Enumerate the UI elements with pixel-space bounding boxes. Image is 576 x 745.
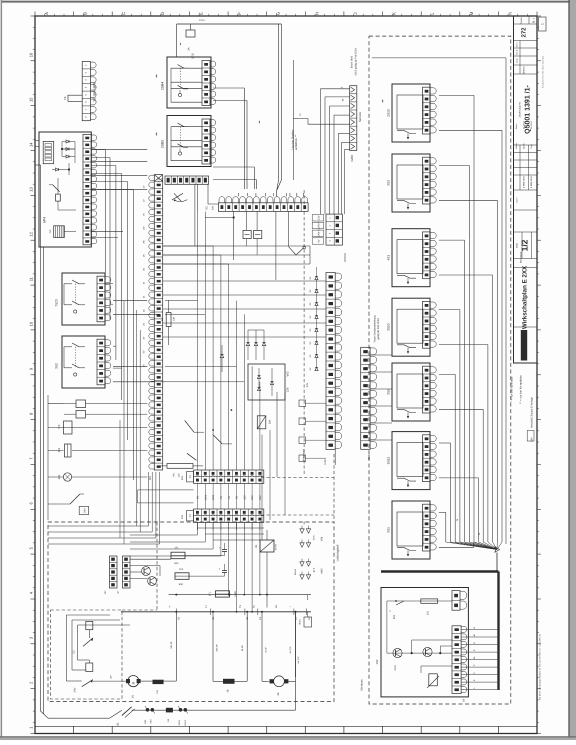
svg-text:Service: Service [358,112,362,122]
svg-text:C: C [121,12,126,15]
title block outline [514,16,538,363]
svg-text:M: M [131,681,135,684]
svg-text:X200 gültig ab Feb 2004: X200 gültig ab Feb 2004 [354,48,357,76]
svg-text:CAN-L: CAN-L [318,229,321,237]
capacitor C1 + [222,549,227,551]
horizontal wires X20 area to relay K1 [198,528,265,540]
wires X21 bottom stubs [335,253,345,465]
scanner edge top strip [0,0,576,1]
diode column left of X21 [309,267,318,371]
switch module 2S10 outline [392,84,430,142]
dashed enclosure right modules [369,36,511,704]
svg-text:Y-: Y- [169,605,172,607]
svg-text:wh rt: wh rt [313,535,316,540]
switch module 3S1 pin strip [423,504,431,551]
svg-text:2N: 2N [143,268,146,271]
6P4 counter box 00000h [43,141,54,163]
terminal strip X1 [218,203,308,212]
main switch Q1 [122,707,132,716]
svg-text:3A: 3A [188,47,191,50]
switch module 4S1 bottom contact [397,275,416,278]
module 2SB4 outline [167,57,211,108]
feeder wires into X20 label area [138,489,194,491]
terminal strip X21 [326,273,335,450]
terminal strip K7 left [110,556,118,588]
svg-text:Schutzvermerk ISO 16016 beacht: Schutzvermerk ISO 16016 beachten [542,56,545,88]
suppressor box V63 [248,364,285,400]
svg-text:Gepr.: Gepr. [530,143,533,148]
svg-text:G: G [276,12,281,15]
switch block 3S2 link and actuator [75,347,77,368]
svg-text:sw 2,5²: sw 2,5² [297,656,300,663]
switch block 3S2 left wire [63,347,65,368]
bus connector labels X0 X5 X3 X1 X4 [176,609,311,620]
scanner edge right band [568,0,570,740]
svg-text:E: E [199,12,204,15]
sheet index box top right [539,17,547,31]
svg-text:+: + [219,546,221,550]
svg-text:M: M [469,11,474,15]
svg-text:24.03.04: 24.03.04 [530,120,533,129]
svg-text:CAN: CAN [204,495,207,500]
svg-text:24V: 24V [83,508,86,513]
wires from 2SB4 strip to vertical pair A [213,87,244,89]
svg-text:272: 272 [521,27,528,38]
terminal strip K7 right [123,556,131,588]
switch block 3S2 pin strip [97,339,105,385]
6P4 internal connect wires [62,148,75,150]
svg-text:Ident-Nr.: Ident-Nr. [523,65,526,74]
switch module 3S3 outline [392,154,430,212]
switch module 3S10 pin strip [423,301,431,348]
funnel wire merge above X1 [277,180,282,191]
svg-text:6AxN MVB: 6AxN MVB [351,56,354,69]
svg-text:6P4: 6P4 [43,217,47,223]
svg-text:Ers.d.: Ers.d. [516,49,519,55]
svg-text:71h: 71h [49,229,52,234]
svg-text:8B: 8B [277,692,280,695]
switch module 3S10 outline [392,298,430,356]
contact with arrow lower [82,680,93,687]
switch module 2S10 pin strip [423,87,431,134]
module 2SB5 pin strip [202,119,210,164]
wires from 2SB5 strip to vertical pair B [213,166,254,168]
svg-text:Gehäuse: Gehäuse [360,679,364,691]
unit internal wires [387,601,452,673]
svg-text:Wirkschaltplan E 2XX: Wirkschaltplan E 2XX [522,265,529,329]
knot switch symbol below X19 [172,193,187,201]
svg-text:J: J [353,12,358,14]
svg-text:K7: K7 [104,590,107,594]
svg-text:A: A [44,12,49,15]
switch S3 [70,494,80,504]
svg-text:rt 2,5²: rt 2,5² [265,647,268,653]
shunt 3B [223,679,235,684]
module 2SB5 internal wires [171,126,202,128]
svg-text:1N: 1N [143,254,146,257]
motor X1 with brushes [274,676,285,687]
svg-text:Ers.f.: Ers.f. [516,42,519,47]
terminal strip X20 lower [194,509,264,522]
svg-text:Bearb.: Bearb. [523,142,526,148]
switch module 4S1 outline [392,229,430,287]
svg-text:Name: Name [515,123,518,129]
wires left components to K3 [48,395,147,520]
connector X200 chevron cells [350,86,357,151]
svg-text:PE: PE [64,96,67,100]
svg-text:2S10: 2S10 [387,109,391,117]
switch module 3S10 bottom contact [397,345,416,348]
wire branch Y split [289,247,304,255]
svg-text:U16: U16 [323,459,327,465]
svg-text:Benennung: Benennung [520,251,523,263]
svg-text:1: 1 [541,23,545,25]
terminal strip K3 [154,175,162,470]
indicator lamps cluster B [294,559,324,580]
svg-text:**: ** [155,132,160,136]
svg-text:0V: 0V [220,496,223,499]
diode row of three [246,330,265,360]
label cell X1 upper strip [187,472,194,482]
capacitor C2 + [222,570,227,572]
module 2SB5 switch contact lower [178,144,185,148]
terminal plugs K41 X40 [146,708,150,712]
svg-text:X200: X200 [350,155,354,162]
junction dots on main bus [175,594,296,613]
top ruler ticks and column letters [35,11,537,16]
scanner edge left line [0,0,1,740]
svg-text:H: H [314,12,319,15]
svg-text:2SB5: 2SB5 [161,140,165,148]
6P4 switch contact [53,185,60,192]
relay square K20 b [254,230,262,238]
fuse 1F1 80A [171,552,185,559]
verticals linking X20 strips [198,483,260,509]
svg-text:Anschluß Zusatz-E-Anlage: Anschluß Zusatz-E-Anlage [531,397,534,428]
svg-text:D: D [160,12,165,15]
svg-text:4.FEB.2004: 4.FEB.2004 [523,176,526,188]
switch module 4S1 pin strip [423,232,431,279]
svg-text:Zeichn.: Zeichn. [520,17,523,25]
horizontal feeder wires above X20 [163,246,245,382]
lamp 4H1 [63,473,71,481]
wire X19 right end down to X1 [208,184,218,204]
X6 labels 12V CAN-H CAN-L 0V [312,215,324,245]
wire PE loop to X2 [68,95,82,101]
svg-text:4S1: 4S1 [387,255,391,261]
bus labels T1 T3 A1 A2 [169,604,292,608]
svg-text:0V: 0V [228,496,231,499]
module 2SB4 switch contact lower [178,85,185,89]
switch module 3S5 bottom contact [397,410,416,413]
switch module 4S1 inner box [397,240,423,274]
svg-text:BI 36²: BI 36² [241,645,244,651]
wire K1 to bus [266,552,268,608]
svg-text:V64: V64 [321,536,324,541]
svg-text:0V: 0V [318,239,321,242]
svg-text:Urspr.: Urspr. [516,57,519,63]
svg-text:X2: 6Mx 6P6: X2: 6Mx 6P6 [93,82,97,102]
svg-text:X7: X7 [117,590,120,594]
svg-text:36²: 36² [110,675,113,678]
wires between center strips and modules [370,355,392,440]
svg-text:**: ** [382,99,386,102]
svg-text:7S23: 7S23 [55,299,59,307]
svg-text:24V: 24V [212,205,215,210]
wires below X1 relay squares [246,239,248,246]
scanner edge bottom band [0,736,576,737]
thick bus vertical [497,572,499,691]
transistor Q11 [148,577,157,586]
switch module 8S11 bottom contact [397,478,416,481]
wire fuse 1F3 right [189,575,225,577]
wires X20 lower strip down to power bus [228,522,261,612]
fuse Q6 inline [166,708,173,713]
fuse 6F1 10A horizontal [167,464,193,469]
svg-text:Neue Geräteanlenkung: Neue Geräteanlenkung [374,315,377,342]
vertical wire pair A [243,88,245,189]
svg-text:15: 15 [29,97,34,102]
contactor coil K9 lower [86,663,93,671]
switch block 7S23 contact lower [72,301,79,305]
svg-text:6V 9V: 6V 9V [275,543,278,550]
svg-text:26A: 26A [269,419,272,424]
valve coil 7Y3 [64,421,73,434]
wires X20 strips vertical stubs [198,465,260,530]
svg-text:B: B [83,12,88,15]
module 2SB5 switch contact upper [178,123,185,127]
motor circuit 2 wires [213,612,247,682]
svg-text:X1: X1 [205,206,209,210]
right ruler ticks [537,16,541,734]
vertical wires below K3 to lower left area [48,472,160,544]
fuse 6F1 10A [166,313,171,327]
svg-text:24V: 24V [306,382,309,387]
signal labels between X20 strips [197,495,262,500]
svg-text:SW 36²: SW 36² [170,641,173,649]
unit top connector 2 cells [452,591,460,611]
svg-text:7219: 7219 [394,665,397,671]
svg-text:2F1: 2F1 [209,591,212,596]
terminal strip X20 upper [194,470,264,483]
svg-text:3S10: 3S10 [387,323,391,331]
relay K5 boxes [76,400,86,408]
module 2SB5 mechanical link [180,127,182,147]
extra vertical wires left midfield [105,284,140,544]
svg-text:24V: 24V [251,495,254,500]
svg-text:Q1.: Q1. [117,722,120,726]
svg-text:Datum: Datum [515,143,518,149]
svg-text:Reset: Reset [294,569,297,575]
svg-text:24.03.04: 24.03.04 [523,120,526,129]
svg-text:24V: 24V [181,475,184,480]
module output wires to bus verticals [439,95,502,547]
connector X2 6Mx 6P6 [82,62,96,121]
svg-text:0V: 0V [236,496,239,499]
motor 3M1 [128,676,139,687]
switch module 3S1 bottom contact [397,548,416,551]
bottom supply wire [48,717,109,719]
svg-text:gn rt: gn rt [313,567,316,572]
relay contact symbols mid left [185,421,232,461]
fan junction node [495,547,500,553]
svg-text:24V: 24V [259,495,262,500]
wires 3S2 to right [113,365,147,367]
svg-text:Co: Co [73,650,76,654]
unit main strip [452,626,461,694]
fuse 2F32 3A [186,30,195,37]
svg-text:Zeichnungs-Nr.: Zeichnungs-Nr. [519,101,522,118]
switch module 3S5 outline [392,363,430,421]
module 2SB4 switch contact upper [178,65,185,69]
small squares left of X21 lower [299,400,326,462]
switch block 7S23 outline [62,273,105,325]
svg-text:Norm: Norm [516,197,519,202]
svg-text:Bl. 1: Bl. 1 [533,17,536,23]
fuse 2F5 [65,444,72,457]
svg-text:13: 13 [29,187,34,192]
title block company logo bar [521,330,527,361]
svg-text:Interface-I: Interface-I [301,448,305,461]
svg-text:Leistungsteil: Leistungsteil [336,544,340,561]
boxed label 24V [79,507,89,515]
svg-text:7Y3: 7Y3 [58,424,61,429]
switch block 3S2 contact lower [72,364,79,368]
module 2SB4 pin strip [202,61,210,106]
svg-text:+: + [219,567,221,571]
terminal plugs X40.1 K41.1 [179,708,183,712]
svg-text:10: 10 [29,321,34,326]
motor circuit 3 wires [262,612,296,682]
svg-text:1F3: 1F3 [179,568,184,571]
wire diagonal up to switch [109,710,122,718]
vertical wire pair below X19 [194,184,196,246]
wires 7S23 to right [113,300,147,302]
svg-text:9S2: 9S2 [393,614,396,619]
svg-text:CAN: CAN [212,495,215,500]
wire bus right end down [295,612,297,710]
relay square K20 a [243,230,251,238]
svg-text:Für diese Zeichnung behalten w: Für diese Zeichnung behalten wir uns all… [539,633,542,700]
switch block 3S2 contact upper [72,343,79,347]
vertical wire pair C from top feed [278,24,280,180]
wires 6P4 strip to K3 strip [91,150,147,238]
svg-text:2A: 2A [303,521,306,524]
svg-text:24V: 24V [74,687,77,692]
B20 cell numbers [363,350,366,446]
svg-text:** = nur bei Kompaktus: ** = nur bei Kompaktus [519,375,523,404]
dashed boundary step [156,522,158,610]
svg-text:X19: X19 [158,177,161,182]
upper distribution wire [169,594,311,596]
transistor Q10 [142,567,151,576]
long vertical wire left of X200 [293,60,295,180]
6P4 diode array [61,140,75,158]
bottom ruler line with ticks [35,726,537,733]
svg-text:3S1: 3S1 [387,527,391,533]
svg-text:* nur bei Stopfen-: * nur bei Stopfen- [292,129,295,150]
svg-text:X4: X4 [463,698,466,702]
diode D1 mid [220,354,223,357]
switch block 7S23 left wire [63,284,65,305]
svg-text:9U15: 9U15 [299,619,302,625]
module 2SB4 mechanical link [180,68,182,88]
6P4 coil diode [56,168,59,171]
unit strip output stubs [461,626,497,689]
wires battery area [66,615,130,681]
relay block 6P4 outline [39,132,91,247]
vertical wires right of 26A down to K1 area [212,392,285,540]
svg-text:W6S: W6S [321,568,324,574]
svg-text:16: 16 [29,52,34,57]
vertical wires X1 region down to X20 strip [198,212,260,466]
svg-text:80A: 80A [174,562,179,565]
switch module 3S3 pin strip [423,157,431,204]
switch block 7S23 contact upper [72,280,79,284]
left ruler ticks and row numbers [29,16,36,734]
svg-text:12V: 12V [243,495,246,500]
dashed box battery compartment [51,610,123,699]
module 2SB4 internal wires [171,67,202,69]
unit top wires with switch 9S2 [387,600,452,605]
connector X6 CAN [326,214,342,245]
module 2SB5 actuator circle [178,152,181,155]
svg-text:6F1: 6F1 [161,316,164,321]
svg-text:Blatt: Blatt [516,243,519,248]
svg-text:sw 2,5²: sw 2,5² [289,646,292,653]
varistor in unit [429,674,438,686]
fuse 2F1 150A [216,591,230,597]
bottom right unit outline [381,588,468,697]
switch module 3S1 outline [392,501,430,559]
svg-text:K41.1: K41.1 [184,719,187,726]
inline resistor 2B1 [421,599,438,603]
relay K1 box [260,540,274,552]
svg-text:80A: 80A [179,583,184,586]
wires K7 to transistors and fuses [130,559,171,578]
svg-text:F: F [237,12,242,15]
module 2SB4 actuator circle [178,93,181,96]
fuse 1F3 80A [175,573,189,580]
switch module 3S1 inner box [397,512,423,546]
label cell X1 lower strip [187,511,194,521]
wire from left bundle to supply [41,689,49,718]
wire fan converging to junction [446,542,502,550]
module 2SB5 outline [167,116,211,167]
svg-text:CAN-H: CAN-H [318,221,321,229]
switch module 8S11 pin strip [423,435,431,482]
relay 26A box [257,416,266,429]
svg-text:3S5: 3S5 [387,389,391,395]
shunt 1W1 [153,680,164,684]
box 9U15 at bus right end [304,617,312,627]
svg-text:2F5: 2F5 [58,447,61,452]
wires X1 down to relays [205,211,289,280]
svg-text:Kl.15: Kl.15 [199,19,205,22]
svg-text:1S2: 1S2 [375,659,379,664]
svg-text:10A: 10A [173,316,176,321]
6P4 pin strip [83,134,91,244]
vertical wire pair B [253,167,255,189]
switch module 3S5 inner box [397,374,423,408]
switch module 8S11 outline [392,432,430,490]
svg-text:12: 12 [29,231,34,236]
switch module 3S5 pin strip [423,366,431,413]
switch block 3S2 outline [62,336,105,388]
X200 staircase wires to left [294,89,350,214]
svg-text:K1: K1 [255,544,258,548]
K3 cell labels [143,185,146,367]
